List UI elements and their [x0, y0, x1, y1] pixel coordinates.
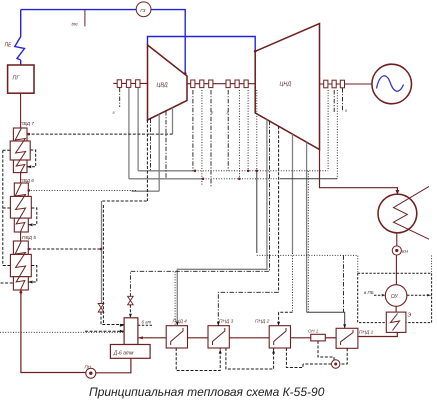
wire right gland leakoff b [342, 88, 344, 112]
wire ПВД5 steam [28, 248, 101, 250]
wire ПНД1 drain to pump [340, 348, 347, 364]
wire gland line 1 [128, 88, 130, 179]
wire ПНД2 feed dotted [292, 253, 294, 312]
condenser coil zigzag with cooling water [394, 186, 430, 239]
arrowheads [27, 165, 346, 353]
wire ПНД1 to ejector cooler [358, 332, 397, 336]
wire gland to deaerator valve [101, 201, 103, 303]
svg-text:8: 8 [345, 109, 347, 113]
drain cooler ОН1 [311, 334, 326, 341]
title text [89, 385, 349, 399]
ejector cooler Э [386, 312, 406, 332]
HP heater ПВД6 [10, 173, 31, 232]
wire dotted drop [307, 171, 309, 312]
wire ПНД3 to ПНД2 [229, 337, 269, 339]
wire ОН1 to ПНД1 [325, 337, 336, 339]
LP heater ПНД3 [208, 326, 229, 348]
svg-text:tпе: tпе [72, 22, 79, 27]
dashed line ОУ right [407, 294, 432, 296]
wire extraction to ПВД6 run [132, 190, 160, 192]
drain pump ДН [332, 360, 340, 368]
valve 2 (deaerator steam) [128, 296, 134, 305]
wire gland line 2 [137, 88, 139, 171]
svg-text:ПВД 7: ПВД 7 [20, 121, 34, 127]
ПВД5 drain loop [28, 266, 37, 283]
wire pump to seal cooler [395, 255, 397, 285]
LP heater ПНД1 [336, 328, 358, 348]
shaft left [113, 82, 147, 84]
turbine HP cylinder ЦВД [148, 45, 188, 120]
generator sine [377, 76, 404, 91]
seal teeth left gland [117, 80, 140, 88]
svg-text:ПВД 5: ПВД 5 [22, 235, 36, 241]
wire bus2 dotted [203, 178, 280, 180]
wire pump to deaerator [96, 358, 131, 373]
wire bus2 up leg [336, 90, 338, 179]
condenser steam inlet arrow [395, 190, 399, 195]
wire ПВД drains to deaerator dotted [0, 331, 124, 333]
wire bus2 dark part [280, 178, 337, 180]
condenser [378, 194, 417, 233]
svg-text:8: 8 [113, 111, 115, 115]
wire bus1 dotted [195, 170, 328, 172]
wire valve to turbine [150, 10, 185, 74]
steam generator ПГ [8, 65, 34, 93]
shaft middle [187, 83, 255, 85]
wire ЦВД extraction II [165, 111, 167, 179]
deaerator column [124, 318, 138, 345]
svg-text:ПЕ: ПЕ [5, 43, 13, 49]
dashed box around ОУ [358, 273, 432, 322]
dark routing lines [257, 171, 345, 328]
generator G [372, 64, 412, 104]
svg-text:8: 8 [211, 111, 213, 115]
wire ПВД7 left stub [3, 149, 10, 151]
wire gland drop to ПНД1 [343, 255, 345, 312]
wire ПВД5 left stub [3, 265, 11, 267]
turbine LP cylinder ЦНД [255, 24, 319, 150]
wire ЦНД drop [292, 134, 294, 253]
drain loop ПНД2 right [286, 348, 303, 368]
wire valve2 to deaerator top [129, 305, 131, 318]
wire ПНД4 to ПНД3 [188, 337, 209, 339]
wire ПВД6 steam [28, 189, 137, 191]
wire mid gland drop b [210, 90, 212, 186]
wire ЦВД extraction I [150, 119, 152, 171]
dash-dot seal/extraction drops [120, 88, 344, 326]
drain loop ПНД3-ПНД2 [226, 348, 274, 369]
wire gland dotted twin [102, 205, 104, 325]
seal steam cooler ОУ [385, 285, 407, 307]
wire ЦНД seal drop c [256, 90, 258, 171]
wire ОУ to ejector [395, 306, 397, 312]
stop valve ГЗ [136, 2, 151, 17]
wire ПНД4 feed dotted twin [174, 272, 176, 326]
wire ПВД drain header vertical [2, 150, 4, 265]
wire extraction to ПНД4 [177, 120, 267, 326]
wire extraction to ПВД6 riser [158, 114, 160, 191]
svg-text:КН: КН [402, 249, 409, 254]
wire ЦНД seal drop solid [256, 171, 258, 253]
wire left gland leakoff [119, 88, 121, 107]
svg-text:ЦВД: ЦВД [157, 83, 168, 89]
feedwater line ПВД5 down and to pump [21, 290, 86, 373]
shaft right to generator [320, 83, 372, 85]
drain loop ПНД4-ПНД3 [176, 348, 220, 371]
ПВД7 drain loop [27, 150, 36, 167]
svg-text:ПВД 6: ПВД 6 [20, 178, 34, 184]
wire valve1 to deaerator [101, 312, 124, 325]
superheater ПЕ zigzag [15, 10, 25, 60]
feed pump ПН [86, 368, 96, 378]
wire deaerator to ПНД4 [139, 337, 167, 339]
wire ЦНД drop to ПНД1 [306, 142, 308, 312]
wire drain to deaerator [85, 330, 124, 332]
svg-text:ПГ: ПГ [13, 76, 21, 82]
wire bus2 gray part [129, 178, 203, 180]
svg-text:6 ат: 6 ат [142, 320, 152, 325]
wire mid gland drop a [192, 90, 194, 171]
LP heater ПНД2 [269, 326, 290, 348]
wire ПВД6 left stub [3, 207, 11, 209]
wire ЦНД seal drop b [238, 90, 240, 179]
wire dotted bus y255 [257, 255, 358, 273]
svg-text:ПН: ПН [85, 365, 92, 370]
wire ПВД7 steam [27, 133, 173, 135]
dashed lines (black) [1, 120, 348, 371]
svg-text:ОУ: ОУ [391, 294, 399, 300]
wire ЦНД exhaust to condenser [320, 150, 398, 195]
svg-text:ГЗ: ГЗ [140, 8, 145, 13]
wire mid seal dotted drop [201, 90, 203, 186]
wire mid gland drop c [227, 90, 229, 171]
svg-text:ПНД 3: ПНД 3 [219, 319, 234, 325]
wire extraction to ПВД7 [172, 108, 174, 134]
svg-text:ЦНД: ЦНД [280, 82, 292, 88]
wire pump discharge left [303, 363, 331, 365]
pump to ОН1 [318, 341, 334, 360]
deaerator tank Д-6атм [110, 345, 150, 359]
wire right gland leakoff a [333, 90, 335, 112]
LP heater ПНД4 [166, 326, 187, 348]
wire ПНД2 feed legs [279, 312, 293, 325]
arrow into deaerator [138, 336, 143, 339]
svg-text:ОН 1: ОН 1 [308, 329, 319, 334]
svg-text:Э: Э [408, 313, 412, 319]
wire ПНД1 feed horizontal [307, 312, 345, 328]
main steam line (blue) [15, 10, 255, 74]
wire gland corner [102, 200, 147, 202]
condensate pump КН [396, 233, 398, 246]
seal teeth middle gland [191, 80, 249, 88]
svg-text:ПНД 1: ПНД 1 [359, 330, 374, 336]
svg-text:в ПБ: в ПБ [364, 290, 374, 295]
wire ПГ to superheater [20, 60, 22, 65]
wire ПНД3 feed riser [278, 126, 280, 292]
HP heater ПВД7 [10, 93, 30, 172]
HP heater ПВД5 [10, 232, 31, 290]
wire right gland drop [327, 90, 329, 171]
wire ЦВД corner down [146, 120, 148, 201]
wire deaerator steam valve2 [130, 121, 269, 297]
wire ЦНД seal drop a [247, 90, 249, 171]
ПВД6 drain loop [28, 208, 37, 225]
valve 1 (deaerator gland steam) [98, 304, 104, 313]
wire ПВД5 bottom stub [1, 282, 14, 284]
wire crossover ЦВД to ЦНД [148, 37, 256, 52]
t tick mark [84, 9, 86, 26]
wire main steam top run [21, 9, 138, 11]
wire ПНД2 to ОН1 [291, 337, 311, 339]
seal teeth right gland [324, 80, 345, 88]
wire extraction to ПНД3 [218, 292, 278, 325]
main condensate line [139, 332, 398, 337]
svg-text:Д-6 атм: Д-6 атм [113, 350, 134, 356]
wire bus1 gray part [138, 170, 195, 172]
svg-text:ПНД 2: ПНД 2 [255, 319, 270, 325]
dotted extraction buses [0, 90, 358, 332]
svg-text:8: 8 [227, 111, 229, 115]
tiny seal labels [113, 109, 348, 115]
gray extraction lines [102, 88, 307, 326]
